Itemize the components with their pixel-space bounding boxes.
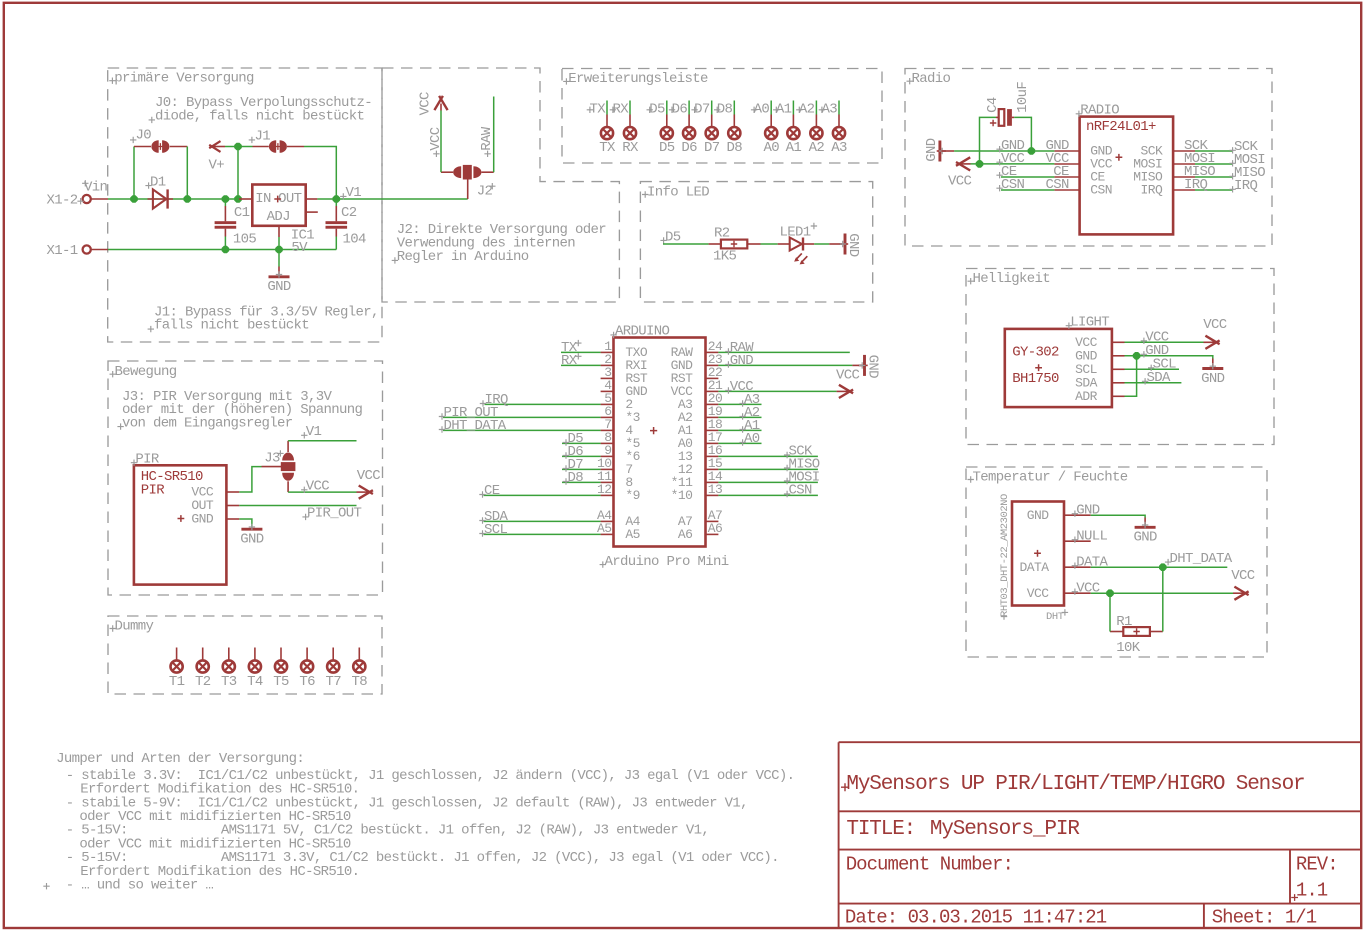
capacitor C2 [335,199,337,206]
header pad A2 [796,101,824,156]
svg-text:ADR: ADR [1075,389,1098,404]
svg-text:DHT_DATA: DHT_DATA [1170,551,1233,567]
pin stub radio left VCC [1054,157,1112,172]
svg-text:DHT: DHT [1046,611,1064,623]
svg-text:GND: GND [1133,530,1157,546]
svg-text:ARDUINO: ARDUINO [615,324,670,340]
test pad T6 [299,648,315,690]
svg-text:nRF24L01+: nRF24L01+ [1086,119,1156,135]
svg-text:A6: A6 [678,527,693,542]
wire RAW [718,351,849,353]
section box Info LED [640,182,872,302]
svg-text:GND: GND [240,532,264,548]
wire SDA [484,520,601,522]
pin stub arduino right *10 [671,482,723,503]
wire V1 from J3 [287,441,289,452]
section box Bewegung [108,361,383,595]
wire SCL [484,533,601,535]
pin stub arduino left 4 [601,417,634,438]
pin stub radio right MISO [1133,170,1195,185]
wire MISO radio right [1195,176,1233,178]
wire CE [484,494,601,496]
pin stub dht GND [1027,508,1091,523]
wire GND dht [1091,515,1145,517]
svg-text:A1: A1 [786,140,802,156]
svg-text:R1: R1 [1116,614,1132,630]
svg-text:*10: *10 [671,488,693,503]
svg-text:D8: D8 [568,470,584,486]
pin stub light VCC [1075,335,1124,350]
svg-text:Bewegung: Bewegung [115,364,177,380]
svg-text:Date: 03.03.2015 11:47:21: Date: 03.03.2015 11:47:21 [845,906,1107,928]
pin stub arduino left *9 [597,482,640,503]
svg-text:A6: A6 [708,521,723,536]
supply arrow V+ [209,141,220,152]
pin stub light ADR [1075,389,1124,404]
pin stub arduino left 7 [597,456,633,477]
svg-text:T5: T5 [273,674,289,690]
title text MySensors UP PIR/LIGHT/TEMP/HIGRO Sensor [841,773,1304,796]
wire Vin main rail [108,198,239,200]
node junction GND light [1133,352,1141,360]
pin stub arduino left TXO [601,339,648,360]
svg-text:T3: T3 [221,674,237,690]
svg-text:BH1750: BH1750 [1012,371,1059,387]
title block frame [839,742,1361,928]
pin stub radio right MOSI [1133,157,1195,172]
svg-text:104: 104 [343,231,367,247]
svg-text:Sheet: 1/1: Sheet: 1/1 [1212,906,1317,928]
svg-text:OUT: OUT [278,191,302,207]
pin stub light SDA [1075,375,1124,390]
svg-text:VCC: VCC [428,127,444,151]
svg-text:GND: GND [924,138,940,162]
svg-text:GND: GND [191,512,214,527]
svg-text:10uF: 10uF [1015,82,1031,113]
wire VCC from J3 [287,481,289,492]
wire V+ to main rail [237,147,239,200]
svg-text:Dummy: Dummy [115,618,154,634]
svg-text:T2: T2 [195,674,211,690]
svg-text:105: 105 [233,231,257,247]
svg-text:V1: V1 [346,185,362,201]
wire RAW arm of J2 [493,97,495,173]
svg-text:D8: D8 [727,140,743,156]
wire D8 arduino [562,481,601,483]
svg-text:TX: TX [599,140,616,156]
svg-text:DATA: DATA [1076,554,1108,570]
header pad A0 [751,101,779,156]
supply arrow VCC bewegung [357,491,370,493]
pin stub arduino left GND [601,378,648,399]
svg-text:VCC: VCC [836,367,860,383]
wire PIR_OUT [239,505,356,507]
resistor R1 [1110,631,1123,633]
svg-text:von dem Eingangsregler: von dem Eingangsregler [122,415,293,431]
pin stub arduino left *6 [601,443,640,464]
pin stub radio right IRQ [1141,183,1195,198]
svg-text:NULL: NULL [1076,528,1107,544]
svg-text:SCL: SCL [484,522,508,538]
svg-text:LED1: LED1 [780,224,811,240]
note text Jumper und Arten der Versorgung [43,751,794,894]
ic PIR HC-SR510 [134,465,227,584]
pin stub dht VCC [1027,586,1091,601]
wire D6 arduino [562,455,601,457]
svg-text:falls nicht bestückt: falls nicht bestückt [154,318,309,334]
svg-text:PIR: PIR [135,452,160,468]
wire V1 output to J2 [336,198,467,200]
pin stub pir GND [191,512,239,527]
svg-text:RADIO: RADIO [1080,103,1119,119]
svg-text:V1: V1 [306,424,322,440]
ground left of radio [924,138,946,162]
wire VCC pin21 [718,390,836,392]
pin stub pir OUT [191,498,239,513]
svg-text:Regler in Arduino: Regler in Arduino [397,249,529,265]
wire CSN arduino right [718,494,818,496]
pin stub arduino left A4 [597,508,641,529]
header pad RX [610,101,639,156]
svg-text:D5: D5 [659,140,675,156]
regulator IC1 [252,185,305,226]
wire A1 arduino right [718,429,761,431]
svg-text:GND: GND [845,233,861,257]
svg-text:GY-302: GY-302 [1012,344,1059,360]
wire MOSI radio right [1195,163,1233,165]
wire VCC dht [1091,592,1233,594]
svg-text:Helligkeit: Helligkeit [973,271,1051,287]
wire A2 arduino right [718,416,761,418]
svg-text:Arduino Pro Mini: Arduino Pro Mini [605,554,729,570]
pin stub arduino right *11 [671,469,723,490]
svg-text:T7: T7 [325,674,341,690]
wire CSN radio [1001,189,1054,191]
wire VCC light [1125,341,1204,343]
jumper J1 [253,146,269,148]
section box Radio [905,69,1272,247]
svg-text:ADJ: ADJ [267,209,290,225]
node junction GND radio [1028,147,1036,155]
svg-text:VCC: VCC [417,92,433,116]
svg-text:VCC: VCC [1027,586,1050,601]
header pad D8 [714,101,742,156]
pin stub arduino left A5 [597,521,640,542]
pin stub light SCL [1075,362,1124,377]
wire VCC arm of J2 [440,111,442,173]
svg-text:GND: GND [730,353,754,369]
ic LIGHT GY-302 BH1750 [1005,329,1112,407]
pin stub arduino right 12 [678,456,722,477]
svg-text:10K: 10K [1116,640,1141,656]
svg-text:J1: J1 [255,129,271,145]
test pad T5 [273,648,289,690]
svg-text:Jumper und Arten der Versorgun: Jumper und Arten der Versorgung: [56,751,304,767]
header pad D6 [669,101,697,156]
svg-text:Radio: Radio [912,71,951,87]
header pad A3 [819,101,847,156]
svg-text:PIR_OUT: PIR_OUT [307,506,362,522]
svg-text:D1: D1 [150,175,166,191]
pin stub arduino right A0 [678,430,722,451]
svg-text:VCC: VCC [306,479,330,495]
wire SCK arduino right [718,455,818,457]
svg-text:IRQ: IRQ [1141,183,1164,198]
capacitor C4 [980,117,997,163]
svg-text:Temperatur / Feuchte: Temperatur / Feuchte [973,469,1128,485]
node junctions on bottom rail [222,246,230,254]
title REV [1291,853,1338,901]
svg-text:V+: V+ [209,157,225,173]
header pad D5 [647,101,675,156]
svg-text:Document Number:: Document Number: [846,853,1013,875]
section box Dummy [108,616,382,694]
wire ADR to GND [1125,356,1137,397]
node junctions on main rail [130,195,138,203]
capacitor C1 [224,199,226,206]
svg-text:1K5: 1K5 [713,249,737,265]
svg-text:CSN: CSN [789,482,813,498]
svg-text:RAW: RAW [479,126,495,151]
svg-text:VCC: VCC [1203,317,1227,333]
pin stub radio right SCK [1141,144,1195,159]
pin stub dht NULL [1064,540,1091,542]
connector pin X1-2 [83,195,91,203]
wire bottom rail [108,249,336,251]
svg-text:DATA: DATA [1019,560,1049,575]
ground below dht [1144,518,1146,527]
pin stub arduino left *5 [601,430,640,451]
pin stub arduino right 13 [678,443,722,464]
wire D5 to R2 [663,243,709,245]
node junction VCC dht [1106,589,1114,597]
wire DHT_DATA [443,429,601,431]
svg-text:Vin: Vin [84,180,108,196]
wire GND radio [954,150,1054,152]
wire R1 to VCC [1109,593,1111,631]
svg-text:- … und so weiter …: - … und so weiter … [66,878,214,894]
pin stub arduino left RXI [601,352,648,373]
supply arrow VCC above J2 [440,104,442,111]
wire CE radio [1001,176,1054,178]
svg-text:CE: CE [484,483,500,499]
pin stub pir VCC [191,485,239,500]
svg-text:TITLE:: TITLE: [846,818,915,841]
svg-text:VCC: VCC [357,468,381,484]
svg-text:A3: A3 [831,140,847,156]
pin stub arduino left *3 [601,404,640,425]
svg-text:C1: C1 [234,205,250,221]
header pad A1 [773,101,801,156]
pin stub radio left CSN [1054,183,1112,198]
wire SCK radio right [1195,150,1233,152]
wire D5 arduino [562,442,601,444]
ic RADIO nRF24L01+ [1080,117,1174,235]
node junction VCC radio [976,160,984,168]
jumper J0 [133,147,135,200]
pin stub arduino right VCC [671,378,723,399]
svg-text:GND: GND [865,355,881,379]
svg-text:D6: D6 [681,140,697,156]
wire MISO arduino right [718,468,818,470]
resistor R2 [709,243,721,245]
svg-text:GND: GND [1201,371,1225,387]
svg-text:CSN: CSN [1046,177,1070,193]
svg-text:1.1: 1.1 [1296,880,1328,902]
wire D7 arduino [562,468,601,470]
svg-text:MySensors UP PIR/LIGHT/TEMP/HI: MySensors UP PIR/LIGHT/TEMP/HIGRO Sensor [846,773,1304,796]
test pad T7 [325,648,341,690]
svg-text:X1-1: X1-1 [46,243,77,259]
svg-text:Info LED: Info LED [647,184,709,200]
svg-text:X1-2: X1-2 [46,193,77,209]
svg-text:primäre Versorgung: primäre Versorgung [114,71,254,87]
section box Erweiterungsleiste [562,69,882,164]
supply arrow VCC radio [956,157,970,170]
wire LED1 to ground [814,243,829,245]
svg-text:IRQ: IRQ [1234,178,1258,194]
wire A3 arduino right [718,403,761,405]
pin stub arduino right A6 [678,521,722,542]
wire GND pin23 [718,364,852,366]
svg-text:LIGHT: LIGHT [1070,315,1109,331]
svg-text:GND: GND [267,279,291,295]
section box Helligkeit [966,269,1274,445]
pin stub arduino right A1 [678,417,722,438]
svg-text:J0: J0 [136,128,152,144]
test pad T1 [169,648,185,690]
ic DHT RHT03_DHT-22_AM2302NO [1012,502,1064,606]
svg-text:T6: T6 [299,674,315,690]
svg-text:T8: T8 [352,674,368,690]
test pad T4 [247,648,263,690]
svg-text:C4: C4 [985,97,1001,113]
wire PIR_OUT [443,416,601,418]
wire MOSI arduino right [718,481,818,483]
test pad T3 [221,648,237,690]
pin stub arduino right A7 [678,508,722,529]
svg-text:C2: C2 [341,205,357,221]
led LED1 [778,243,790,245]
svg-text:SDA: SDA [1147,370,1172,386]
svg-text:D7: D7 [704,140,720,156]
svg-text:A0: A0 [744,431,760,447]
wire GND light [1125,356,1213,359]
ic ARDUINO Arduino Pro Mini [614,338,706,547]
svg-text:R2: R2 [714,225,730,241]
supply arrow VCC right of arduino [837,390,850,392]
svg-text:RX: RX [622,140,639,156]
wire SCL light [1125,368,1180,370]
pin stub arduino left RST [601,365,648,386]
pin stub arduino right RST [671,365,723,386]
wire R2 to LED1 [761,243,778,245]
svg-text:GND: GND [1027,508,1050,523]
svg-text:DHT_DATA: DHT_DATA [444,418,507,434]
svg-text:IN: IN [255,191,271,207]
wire IRQ [485,403,601,405]
pin stub light GND [1075,348,1124,363]
wire RX [561,364,601,366]
svg-text:T4: T4 [247,674,263,690]
ground below pir [239,519,252,527]
svg-text:VCC: VCC [948,173,972,189]
svg-text:CSN: CSN [1090,183,1112,198]
supply arrow VCC light [1204,341,1217,343]
svg-text:T1: T1 [169,674,185,690]
svg-text:Erweiterungsleiste: Erweiterungsleiste [568,71,708,87]
wire R1 to DATA [1162,567,1164,631]
wire IRQ radio right [1195,189,1233,191]
ground below light [1212,359,1214,369]
diode D1 [148,198,174,200]
jumper J2 [463,165,472,180]
pin stub arduino right GND [671,352,723,373]
svg-text:VCC: VCC [1231,568,1255,584]
svg-text:CSN: CSN [1001,177,1025,193]
pin stub arduino right RAW [671,339,723,360]
section box J2 region [382,68,619,302]
test pad T2 [195,648,211,690]
wire SDA light [1125,382,1182,384]
svg-text:VCC: VCC [1076,580,1100,596]
wire VCC radio [971,163,1055,165]
svg-text:diode, falls nicht bestückt: diode, falls nicht bestückt [155,109,364,125]
svg-text:PIR: PIR [141,482,166,498]
pin stub arduino right A3 [678,391,722,412]
svg-text:RHT03_DHT-22_AM2302NO: RHT03_DHT-22_AM2302NO [999,494,1011,617]
wire DATA dht [1091,566,1228,568]
ground right of LED1 [829,243,843,245]
connector pin X1-1 [83,245,91,253]
svg-text:5V: 5V [291,240,308,256]
svg-text:*9: *9 [625,488,640,503]
svg-text:GND: GND [1076,502,1100,518]
header pad TX [587,101,616,156]
jumper J3 [281,462,296,471]
section box primaere Versorgung [108,68,382,342]
header pad D7 [691,101,719,156]
wire A0 arduino right [718,442,761,444]
title row TITLE MySensors_PIR [846,818,1080,841]
pin stub dht DATA [1019,560,1090,575]
supply arrow VCC dht [1233,592,1245,594]
section box Temperatur / Feuchte [966,467,1267,657]
pin stub arduino left 8 [597,469,633,490]
svg-text:A0: A0 [763,140,779,156]
svg-text:REV:: REV: [1296,853,1338,875]
pin stub radio left CE [1054,170,1105,185]
svg-text:RX: RX [561,353,578,369]
svg-text:A2: A2 [809,140,825,156]
svg-text:A5: A5 [625,527,640,542]
test pad T8 [352,648,368,690]
pin stub arduino right A2 [678,404,722,425]
wire TX [561,351,601,353]
pin stub radio left GND [1054,144,1112,159]
ground below IC1 [278,250,280,267]
svg-text:IRQ: IRQ [1184,177,1208,193]
node junction DATA [1159,563,1167,571]
wire VCC pir to J3 [239,467,261,492]
svg-text:MySensors_PIR: MySensors_PIR [930,818,1080,841]
pin stub arduino left 2 [601,391,633,412]
ground right of arduino [852,364,863,366]
